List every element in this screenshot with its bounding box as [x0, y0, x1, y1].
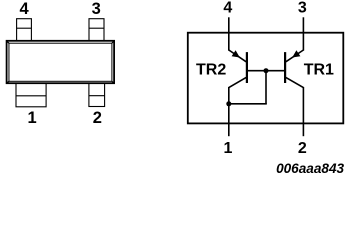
schematic box	[188, 33, 343, 124]
transistor TR1	[285, 50, 303, 88]
svg-text:2: 2	[93, 109, 102, 127]
svg-text:3: 3	[92, 0, 101, 18]
svg-text:TR1: TR1	[304, 61, 334, 78]
svg-text:1: 1	[224, 140, 233, 157]
svg-text:TR2: TR2	[196, 61, 226, 78]
svg-text:4: 4	[20, 0, 30, 18]
svg-text:3: 3	[298, 0, 307, 17]
base drop wire	[265, 71, 267, 104]
svg-text:1: 1	[28, 109, 37, 127]
node collector junction	[226, 101, 231, 106]
pin 3 lead (package top-right)	[89, 19, 104, 41]
svg-text:4: 4	[223, 0, 232, 17]
pin 2 lead (package bottom-right)	[89, 83, 105, 107]
package body	[7, 41, 115, 83]
svg-text:2: 2	[298, 140, 307, 157]
pin 1 wire	[228, 87, 230, 136]
transistor TR2	[229, 50, 247, 88]
pin 4 wire	[228, 17, 230, 50]
svg-text:006aaa843: 006aaa843	[276, 161, 344, 176]
base-to-collector wire	[229, 103, 267, 105]
node base junction	[264, 68, 269, 73]
pin 4 lead (package top-left)	[17, 19, 32, 41]
package inner outline	[7, 41, 115, 83]
base wire (TR2 base to TR1 base)	[247, 70, 285, 72]
pin 1 lead (package bottom-left, wide)	[16, 83, 46, 107]
pin 3 wire	[302, 17, 304, 50]
pin 2 wire	[302, 87, 304, 136]
